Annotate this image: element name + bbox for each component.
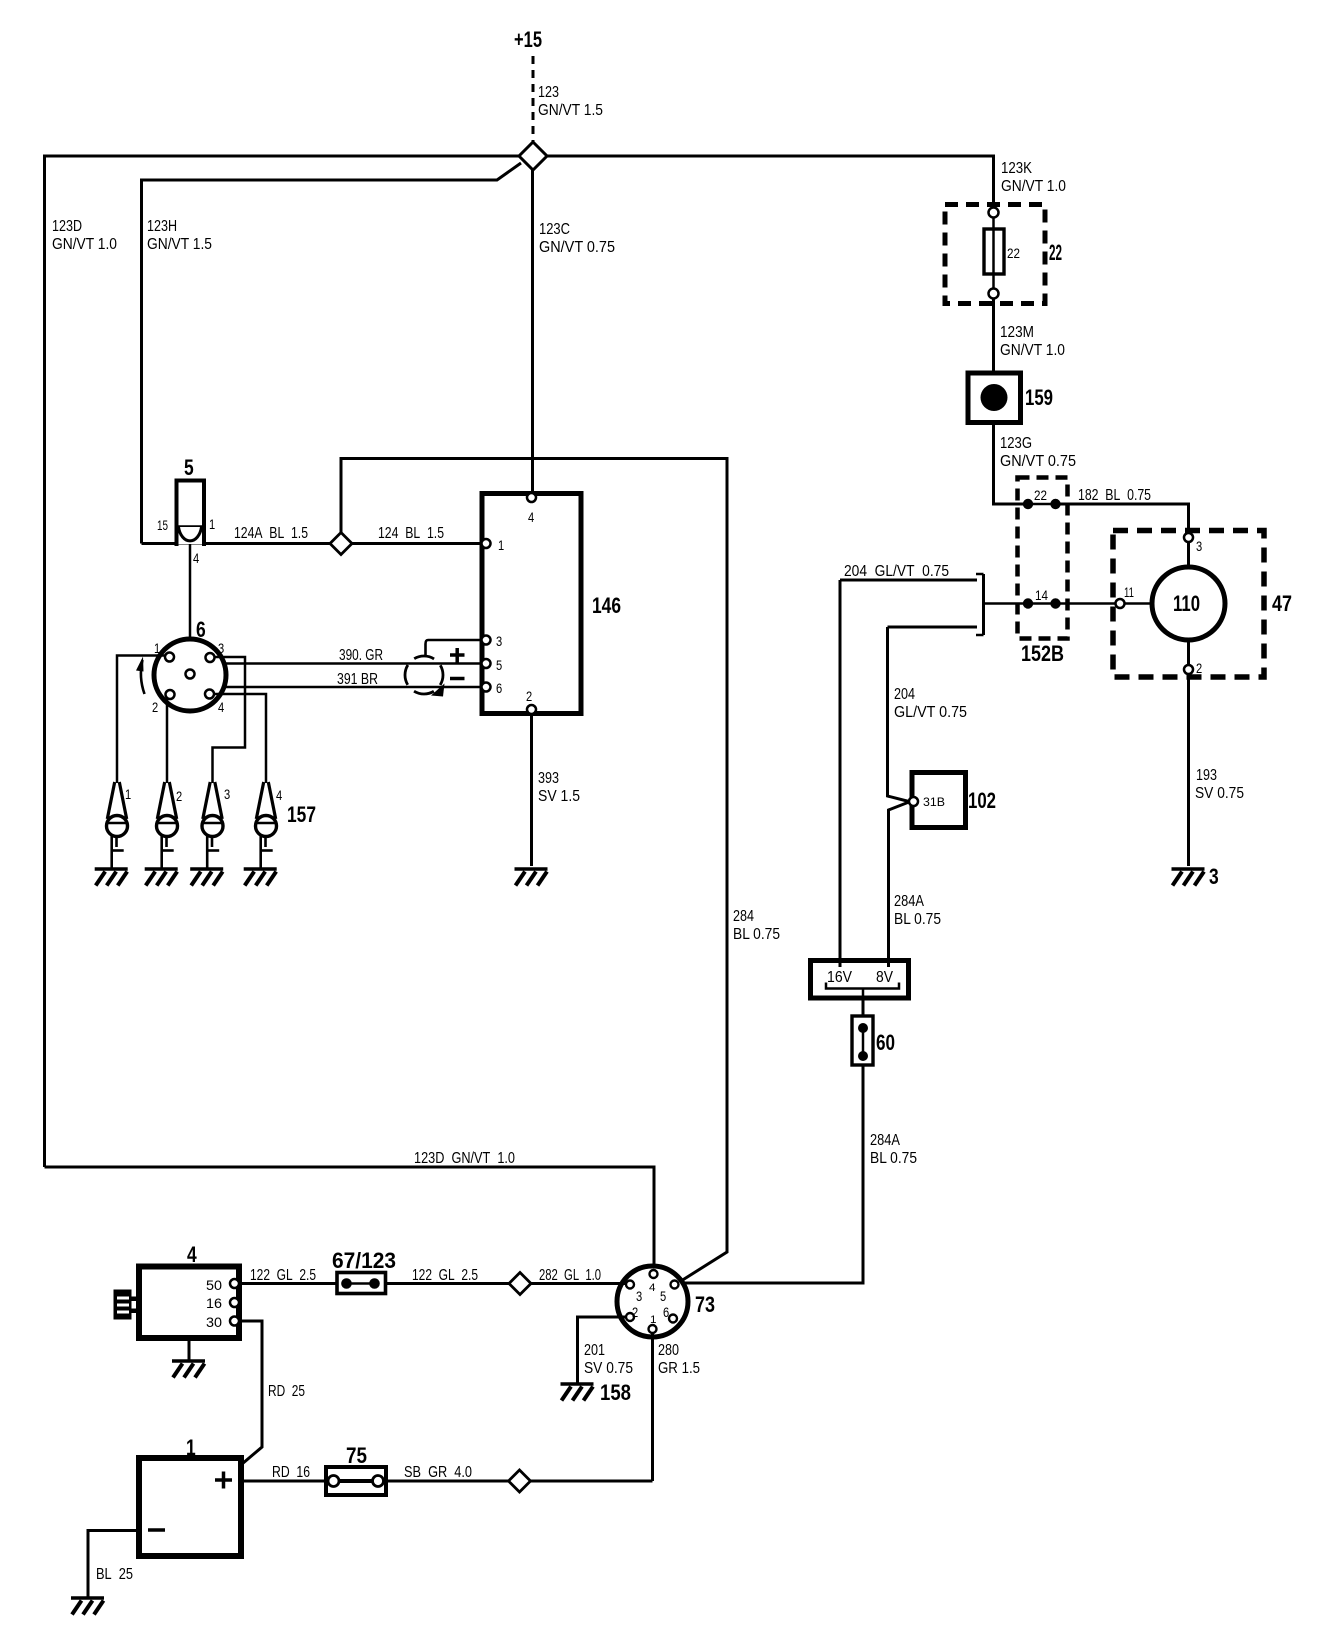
label distributor 6 (196, 617, 206, 642)
junction diamond node at top bus (519, 142, 547, 170)
ignition switch key symbol (114, 1290, 140, 1320)
label connector 152B (1021, 641, 1064, 666)
spark plug 1 of 157 (107, 782, 132, 869)
connector 73 body (617, 1266, 688, 1337)
svg-text:SV 0.75: SV 0.75 (1195, 785, 1244, 802)
svg-text:3: 3 (636, 1288, 642, 1304)
svg-text:390. GR: 390. GR (339, 647, 383, 664)
ignition coil 5 body (177, 481, 205, 547)
svg-text:282 GL 1.0: 282 GL 1.0 (539, 1267, 601, 1284)
svg-text:GN/VT 1.5: GN/VT 1.5 (538, 102, 603, 119)
spark plug 4 of 157 (256, 782, 283, 869)
svg-text:123H: 123H (147, 218, 177, 235)
fuse 22 bottom pin (989, 289, 999, 299)
svg-text:BL 0.75: BL 0.75 (870, 1150, 917, 1167)
label distributor pin 1 (154, 640, 160, 656)
distributor rotor center pin (186, 670, 195, 679)
switch 4 pin 30 (206, 1314, 239, 1330)
distributor rotation arrow (136, 657, 145, 695)
label wire BL 25 (96, 1566, 133, 1583)
wire 390 breaker to unit 146 pin 5 (226, 662, 483, 665)
svg-text:6: 6 (196, 617, 206, 642)
label wire 124A BL 1.5 (234, 525, 308, 542)
svg-text:123: 123 (538, 84, 559, 101)
svg-text:SV 1.5: SV 1.5 (538, 788, 580, 805)
wire lamp to unit 47 pin 2 (1187, 640, 1190, 665)
wire 123 dashed lead from +15 (532, 56, 535, 143)
ignition switch 4 body (139, 1267, 239, 1339)
junction diamond on battery feed (509, 1470, 531, 1492)
svg-text:123D GN/VT 1.0: 123D GN/VT 1.0 (414, 1150, 515, 1167)
label unit 47 (1272, 591, 1292, 616)
svg-text:146: 146 (592, 593, 621, 618)
svg-text:280: 280 (658, 1342, 679, 1359)
wire 204 right leg down to unit 102 pin 31B (888, 627, 910, 802)
svg-text:284: 284 (733, 908, 754, 925)
svg-text:RD 16: RD 16 (272, 1464, 310, 1481)
junction diamond on wire 124 (330, 533, 352, 555)
unit 146 pin 3 (482, 633, 503, 649)
label wire 123G GN/VT 0.75 (1000, 435, 1076, 470)
fuse 22 dashed housing (945, 205, 1045, 304)
svg-text:1: 1 (125, 786, 131, 802)
label wire 123D GN/VT 1.0 (52, 218, 117, 253)
connector 152B dashed housing (1018, 478, 1068, 639)
label wire 182 BL 0.75 (1078, 487, 1151, 504)
svg-text:393: 393 (538, 770, 559, 787)
label coil 5 (184, 455, 194, 480)
ground spark plug 4 (244, 869, 277, 886)
unit 102 pin 31B (909, 795, 945, 809)
svg-text:204: 204 (894, 686, 915, 703)
svg-text:2: 2 (152, 699, 158, 715)
unit 146 pin 2 (526, 688, 536, 714)
connector 152B pin 14 (1023, 587, 1061, 609)
node +15 supply terminal (514, 27, 542, 52)
wire 282 diamond to connector 73 (531, 1282, 626, 1285)
wire distributor pin 1 to spark plug 1 (117, 656, 165, 784)
svg-text:GL/VT 0.75: GL/VT 0.75 (894, 704, 967, 721)
wire 284A from 102 pin 31B down to voltage box 8V (889, 802, 910, 967)
svg-text:22: 22 (1034, 487, 1047, 503)
label breaker minus (450, 677, 465, 681)
ground spark plug 1 (95, 869, 128, 886)
svg-text:157: 157 (287, 802, 316, 827)
label breaker plus (450, 648, 465, 663)
svg-text:3: 3 (224, 786, 230, 802)
wire coil secondary to distributor rotor (189, 544, 192, 673)
label fuse 60 (876, 1030, 895, 1055)
battery minus terminal (148, 1528, 165, 1532)
wire 122 fuse to diamond (386, 1282, 510, 1285)
svg-text:3: 3 (496, 633, 502, 649)
unit 146 pin 4 (527, 493, 536, 525)
wire top bus right segment to fuse 22 (547, 156, 994, 208)
distributor pin 2 (166, 690, 175, 699)
label wire 282 GL 1.0 (539, 1267, 601, 1284)
ground under switch 4 (172, 1361, 205, 1378)
svg-text:2: 2 (526, 688, 532, 704)
svg-text:159: 159 (1025, 385, 1053, 410)
svg-text:204 GL/VT 0.75: 204 GL/VT 0.75 (844, 563, 949, 580)
svg-text:201: 201 (584, 1342, 605, 1359)
connector 73 pin lower-left (626, 1313, 634, 1321)
fuse 67/123 (337, 1273, 386, 1294)
voltage regulator box 16V 8V (811, 961, 909, 999)
label connector 73 pin 3 (636, 1288, 642, 1304)
ignition control unit 146 body (482, 494, 581, 714)
wire 391 breaker to unit 146 pin 6 (226, 686, 483, 689)
label unit 146 (592, 593, 621, 618)
battery plus terminal (215, 1472, 232, 1489)
ground spark plug 3 (190, 869, 223, 886)
svg-text:123D: 123D (52, 218, 82, 235)
label unit 102 (968, 788, 996, 813)
wire 204 left leg down to voltage box 16V (839, 580, 842, 967)
label wire 284A BL 0.75 lower (870, 1132, 917, 1167)
label connector 73 pin 2 (632, 1304, 638, 1320)
wire 284 riser from diamond over to x727 and down to connector 73 (341, 459, 727, 1282)
wire 123C from diamond down to unit 146 pin 4 (531, 170, 534, 495)
svg-text:GN/VT 1.0: GN/VT 1.0 (1001, 178, 1066, 195)
label wire 204 GL/VT 0.75 upper (844, 563, 949, 580)
label battery 1 (186, 1435, 196, 1460)
label wire 390 GR (339, 647, 383, 664)
svg-text:1: 1 (650, 1314, 657, 1326)
svg-text:6: 6 (663, 1304, 669, 1320)
label lamp 110 (1173, 591, 1200, 616)
svg-text:BL 25: BL 25 (96, 1566, 133, 1583)
wire 280 connector 73 to bottom run (651, 1333, 654, 1481)
wire hook from unit 146 pin 3 to breaker (426, 640, 483, 657)
svg-text:31B: 31B (923, 795, 945, 809)
wire SB GR battery run to diamond (386, 1480, 509, 1483)
svg-text:RD 25: RD 25 (268, 1383, 305, 1400)
connector 152B pin 22 (1023, 487, 1061, 509)
svg-text:1: 1 (154, 640, 160, 656)
svg-text:4: 4 (193, 550, 199, 566)
wire BL 25 battery minus to ground (88, 1531, 139, 1599)
fuse 22 element (984, 218, 1004, 290)
svg-text:BL 0.75: BL 0.75 (894, 911, 941, 928)
svg-text:5: 5 (184, 455, 194, 480)
svg-text:GN/VT 0.75: GN/VT 0.75 (539, 239, 615, 256)
label connector 73 pin 6 (663, 1304, 669, 1320)
wire RD 25 switch pin 30 to battery plus (239, 1321, 262, 1464)
svg-text:50: 50 (206, 1277, 222, 1293)
fuse 75 (326, 1467, 386, 1495)
svg-text:3: 3 (1196, 538, 1202, 554)
label wire 123 GN/VT 1.5 (538, 84, 603, 119)
spark plug 3 of 157 (202, 782, 230, 869)
wire 124A under coil (142, 542, 204, 545)
switch 4 pin 16 (206, 1295, 239, 1311)
svg-text:182 BL 0.75: 182 BL 0.75 (1078, 487, 1151, 504)
label distributor pin 3 (218, 640, 224, 656)
junction diamond on wire 282 (509, 1273, 531, 1295)
svg-text:4: 4 (218, 699, 224, 715)
svg-text:BL 0.75: BL 0.75 (733, 926, 780, 943)
svg-text:123M: 123M (1000, 324, 1034, 341)
wire battery feed diamond up to connector 73 (531, 1480, 653, 1483)
battery 1 body (139, 1458, 241, 1556)
label connector 73 (695, 1292, 715, 1317)
label distributor pin 2 (152, 699, 158, 715)
svg-text:16: 16 (206, 1295, 222, 1311)
label wire 123H GN/VT 1.5 (147, 218, 212, 253)
wire 201 connector 73 to ground 158 (578, 1317, 627, 1384)
label wire RD 25 (268, 1383, 305, 1400)
unit 47 dashed housing (1113, 531, 1264, 678)
distributor 6 body (154, 639, 226, 711)
wire voltage box to fuse 60 (862, 998, 865, 1018)
svg-text:3: 3 (218, 640, 224, 656)
wire switch ground stub (188, 1338, 191, 1361)
unit 146 pin 5 (482, 657, 503, 673)
label connector 73 pin 4 (649, 1282, 656, 1294)
wire 152B pin 14 to pin 11 to lamp (1056, 602, 1153, 605)
breaker cam dashed circle with arrow (405, 656, 445, 697)
fuse 22 top pin (989, 208, 999, 218)
wire distributor pin 2 to spark plug 2 (166, 698, 169, 783)
svg-text:11: 11 (1124, 584, 1134, 600)
label fuse 22 (1049, 240, 1062, 265)
svg-text:47: 47 (1272, 591, 1292, 616)
label distributor pin 4 (218, 699, 224, 715)
svg-text:284A: 284A (870, 1132, 900, 1149)
spark plug 2 of 157 (157, 782, 183, 869)
svg-text:2: 2 (176, 788, 182, 804)
wire 122 switch pin 50 to fuse 67/123 (239, 1282, 337, 1285)
label unit 159 (1025, 385, 1053, 410)
wire 284A from fuse 60 down to connector 73 pin 5 (679, 1065, 863, 1283)
wire 124A from coil to diamond (203, 542, 330, 545)
wire 123M fuse 22 to unit 159 (992, 299, 995, 374)
svg-text:102: 102 (968, 788, 996, 813)
label coil pin 4 (193, 550, 199, 566)
label wire 391 BR (337, 671, 378, 688)
svg-text:123C: 123C (539, 221, 570, 238)
label wire RD 16 (272, 1464, 310, 1481)
wire 123G unit 159 to connector 152B (994, 423, 1025, 505)
svg-text:8V: 8V (876, 969, 893, 986)
svg-text:1: 1 (186, 1435, 196, 1460)
wire 393 from unit 146 pin 2 to ground (530, 714, 533, 866)
label wire 204 GL/VT 0.75 lower (894, 686, 967, 721)
svg-text:GN/VT 1.0: GN/VT 1.0 (1000, 342, 1065, 359)
connector 73 pin lower-right (669, 1315, 677, 1323)
label fuse position 22 small (1007, 245, 1020, 261)
wire pin 3 to lamp 110 (1187, 542, 1190, 568)
label wire 122 GL 2.5 left (250, 1267, 316, 1284)
svg-text:GR 1.5: GR 1.5 (658, 1360, 700, 1377)
svg-text:SB GR 4.0: SB GR 4.0 (404, 1464, 472, 1481)
wire 204 upper branch with junction bracket to 152B pin 14 (840, 574, 1028, 635)
svg-text:193: 193 (1196, 767, 1217, 784)
label wire 123D GN/VT 1.0 (414, 1150, 515, 1167)
label wire 123M GN/VT 1.0 (1000, 324, 1065, 359)
distributor pin 4 (205, 690, 214, 699)
label wire 123K GN/VT 1.0 (1001, 160, 1066, 195)
svg-text:122 GL 2.5: 122 GL 2.5 (412, 1267, 478, 1284)
diode unit 159 (968, 373, 1021, 423)
svg-text:30: 30 (206, 1314, 222, 1330)
wire 124 from diamond to unit 146 pin 1 (352, 542, 483, 545)
svg-text:22: 22 (1049, 240, 1062, 265)
svg-text:+15: +15 (514, 27, 542, 52)
wire 182 from 152B pin 22 to unit 47 pin 3 (1056, 504, 1189, 534)
svg-text:5: 5 (660, 1288, 666, 1304)
svg-text:GN/VT 1.0: GN/VT 1.0 (52, 236, 117, 253)
label connector 73 pin 5 (660, 1288, 666, 1304)
wire top bus left segment (45, 156, 520, 1167)
wire 193 from pin 2 to ground 3 (1187, 674, 1190, 866)
svg-text:2: 2 (1196, 660, 1202, 676)
svg-text:GN/VT 1.5: GN/VT 1.5 (147, 236, 212, 253)
svg-text:4: 4 (276, 787, 282, 803)
wire 123H branch with diagonal into diamond (142, 163, 522, 544)
label wire 123C GN/VT 0.75 (539, 221, 615, 256)
label wire 280 GR 1.5 (658, 1342, 700, 1377)
label coil pin 1 (209, 516, 215, 532)
lamp 110 body (1152, 567, 1225, 640)
svg-text:67/123: 67/123 (332, 1248, 396, 1273)
svg-text:152B: 152B (1021, 641, 1064, 666)
label wire 284A BL 0.75 upper (894, 893, 941, 928)
unit 47 pin 11 (1116, 584, 1135, 608)
label wire 124 BL 1.5 (378, 525, 444, 542)
svg-text:6: 6 (496, 680, 502, 696)
distributor pin 3 (206, 653, 215, 662)
svg-text:1: 1 (498, 537, 504, 553)
wire 123D bottom run to connector 73 (45, 1167, 655, 1271)
label wire SB GR 4.0 (404, 1464, 472, 1481)
unit 47 pin 2 (1184, 660, 1202, 676)
label wire 393 SV 1.5 (538, 770, 580, 805)
label fuse 75 (346, 1443, 367, 1468)
ground 158 (561, 1380, 632, 1405)
svg-text:SV 0.75: SV 0.75 (584, 1360, 633, 1377)
unit 146 pin 6 (482, 680, 503, 696)
svg-text:16V: 16V (827, 969, 852, 986)
svg-text:14: 14 (1035, 587, 1048, 603)
label wire 201 SV 0.75 (584, 1342, 633, 1377)
label connector 73 pin 1 (650, 1314, 657, 1326)
svg-text:22: 22 (1007, 245, 1020, 261)
connector 73 pin top (650, 1270, 658, 1278)
ground under unit 146 (515, 869, 548, 886)
label wire 193 SV 0.75 (1195, 767, 1244, 802)
svg-text:GN/VT 0.75: GN/VT 0.75 (1000, 453, 1076, 470)
svg-text:123K: 123K (1001, 160, 1032, 177)
svg-text:1: 1 (209, 516, 215, 532)
label wire 284 BL 0.75 (733, 908, 780, 943)
svg-text:75: 75 (346, 1443, 367, 1468)
label wire 122 GL 2.5 right (412, 1267, 478, 1284)
fuse 60 (852, 1016, 873, 1065)
svg-text:123G: 123G (1000, 435, 1032, 452)
label fuse 67/123 (332, 1248, 396, 1273)
svg-text:391 BR: 391 BR (337, 671, 378, 688)
ground under battery (71, 1598, 104, 1615)
distributor pin 1 (165, 653, 174, 662)
label spark plugs 157 (287, 802, 316, 827)
connector 73 pin bottom (649, 1325, 657, 1333)
connector 73 pin upper-right (671, 1281, 679, 1289)
svg-text:60: 60 (876, 1030, 895, 1055)
svg-text:284A: 284A (894, 893, 924, 910)
svg-text:124A BL 1.5: 124A BL 1.5 (234, 525, 308, 542)
svg-text:122 GL 2.5: 122 GL 2.5 (250, 1267, 316, 1284)
svg-text:3: 3 (1209, 864, 1219, 889)
unit 47 pin 3 (1184, 533, 1202, 554)
unit 102 body (912, 773, 966, 828)
svg-text:4: 4 (528, 509, 534, 525)
svg-text:5: 5 (496, 657, 502, 673)
ground 3 (1172, 864, 1219, 889)
wire distributor pin 4 to spark plug 4 (214, 694, 266, 783)
svg-text:2: 2 (632, 1304, 638, 1320)
wire distributor pin 3 to spark plug 3 (213, 657, 246, 783)
ground spark plug 2 (145, 869, 178, 886)
svg-text:73: 73 (695, 1292, 715, 1317)
svg-text:158: 158 (600, 1380, 631, 1405)
wire RD 16 battery to fuse 75 (241, 1480, 326, 1483)
svg-text:15: 15 (157, 517, 168, 533)
svg-text:124 BL 1.5: 124 BL 1.5 (378, 525, 444, 542)
switch 4 pin 50 (206, 1277, 239, 1293)
connector 73 pin upper-left (626, 1281, 634, 1289)
label switch 4 (187, 1242, 197, 1267)
unit 146 pin 1 (482, 537, 505, 553)
svg-text:4: 4 (187, 1242, 197, 1267)
label coil pin 15 (157, 517, 168, 533)
svg-text:110: 110 (1173, 591, 1200, 616)
svg-text:4: 4 (649, 1282, 656, 1294)
